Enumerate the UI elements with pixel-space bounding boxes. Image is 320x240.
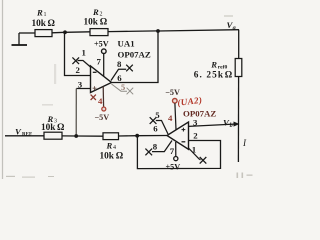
svg-text:a: a (233, 25, 236, 32)
wire: node B to R4 (76, 135, 103, 137)
wire: U1 pin 3 down to node B (75, 89, 77, 137)
wire: U1 pin 7 (103, 54, 105, 77)
svg-text:Ω: Ω (57, 123, 65, 133)
svg-text:ref0: ref0 (218, 64, 228, 70)
junction U1 output node (156, 29, 160, 33)
svg-text:7: 7 (170, 146, 175, 156)
svg-text:10k: 10k (84, 17, 99, 27)
wire: node A to R2 (65, 31, 90, 34)
-5V supply terminal at U2 pin 4 (173, 99, 178, 104)
wire: R3 to node B (62, 135, 76, 137)
svg-text:4: 4 (98, 96, 103, 106)
wire: U2 pin 7 to +5V terminal (175, 142, 177, 156)
svg-text:10k: 10k (41, 123, 56, 133)
resistor R1 (35, 30, 52, 37)
op-amp U2 (167, 122, 189, 149)
svg-text:1: 1 (192, 145, 196, 155)
svg-text:Ω: Ω (225, 70, 233, 80)
wire: U2 pin 2 feedback loop to node C (137, 136, 220, 169)
U1 pin 8 stub with X (111, 65, 133, 81)
resistor R3 (44, 132, 62, 139)
+5V supply terminal at U2 pin 7 (174, 157, 178, 161)
wire: node Va down to Rref0 (238, 30, 240, 59)
wire: U1 pin 4 to -5V terminal (102, 87, 104, 108)
svg-text:7: 7 (97, 57, 102, 67)
svg-text:3: 3 (193, 117, 198, 127)
svg-text:5: 5 (155, 110, 160, 120)
wire: node A down to U1 pin 2 (65, 32, 91, 75)
svg-text:2: 2 (76, 65, 81, 75)
wire: output node to node Va (158, 30, 239, 31)
svg-text:R: R (92, 7, 99, 17)
svg-text:10k: 10k (100, 151, 115, 161)
wire: U2 pin 3 to node Vb (189, 124, 237, 126)
ground (12, 33, 28, 45)
svg-text:8: 8 (153, 142, 158, 152)
U1 pin 1 stub with X (72, 57, 90, 67)
svg-text:5: 5 (121, 83, 125, 92)
svg-text:OP07AZ: OP07AZ (183, 109, 216, 119)
svg-text:3: 3 (78, 80, 83, 90)
wire: R2 to U1 output node (108, 30, 158, 33)
svg-text:6. 25k: 6. 25k (194, 70, 224, 80)
svg-text:Ω: Ω (116, 151, 124, 161)
svg-text:8: 8 (117, 59, 122, 69)
svg-text:b: b (230, 122, 233, 129)
svg-text:R: R (210, 59, 217, 69)
svg-text:Ω: Ω (48, 19, 56, 29)
wire: R4 to node C (119, 135, 138, 137)
op-amp U1 (91, 66, 112, 93)
U1 inverting input minus sign (93, 71, 97, 73)
resistor Rref0 (235, 59, 242, 77)
svg-text:R: R (106, 141, 113, 151)
svg-text:6: 6 (153, 124, 158, 134)
U2 pin 5 stub with X (150, 117, 168, 134)
svg-text:+5V: +5V (94, 40, 109, 49)
svg-text:−5V: −5V (95, 113, 110, 122)
svg-text:+5V: +5V (166, 163, 181, 172)
wire: U1 pin 6 output up to output node (112, 31, 159, 83)
wire: Rref0 down through node Vb (237, 77, 239, 163)
wire: U1 pin 3 (76, 88, 90, 90)
svg-text:OP07AZ: OP07AZ (118, 50, 151, 60)
svg-text:R: R (36, 8, 43, 18)
current arrowhead at node Vb (234, 122, 240, 127)
+5V supply terminal at U1 pin 7 (102, 49, 107, 54)
svg-text:−5V: −5V (165, 88, 180, 97)
svg-text:UA1: UA1 (118, 38, 135, 48)
junction node A (63, 30, 67, 34)
-5V supply terminal at U1 pin 4 (102, 107, 106, 111)
U1 pin 5 stub with X (112, 84, 134, 94)
svg-text:1: 1 (44, 12, 47, 18)
svg-text:Ω: Ω (100, 17, 108, 27)
svg-text:10k: 10k (32, 19, 47, 29)
wire: ground to R1 (19, 32, 35, 34)
U2 non-inverting input plus sign (182, 128, 186, 132)
U2 pin 1 stub with X (189, 148, 207, 164)
svg-text:2: 2 (193, 130, 198, 140)
svg-text:4: 4 (113, 145, 116, 151)
junction node C (135, 134, 139, 138)
svg-text:4: 4 (168, 113, 173, 123)
red X mark at U1 lower corner (91, 95, 96, 100)
wire: node C to U2 pin 6 output (137, 135, 167, 137)
svg-text:1: 1 (82, 48, 86, 58)
svg-text:REF: REF (22, 132, 32, 137)
svg-text:6: 6 (117, 73, 122, 83)
wire: VREF input to R3 (5, 135, 44, 137)
U2 pin 8 stub with X (145, 141, 172, 156)
resistor R4 (103, 133, 119, 140)
resistor R2 (90, 29, 108, 36)
junction node B (74, 134, 78, 138)
U1 non-inverting input plus sign (93, 86, 97, 90)
wire: U2 pin 4 (175, 103, 176, 130)
U2 inverting input minus sign (182, 141, 186, 143)
wire: R1 to node A (52, 31, 65, 34)
